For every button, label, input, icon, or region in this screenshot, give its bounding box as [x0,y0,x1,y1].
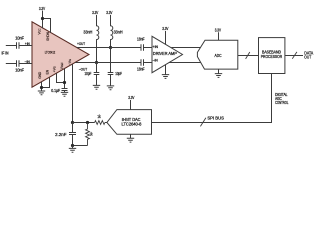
wire SHDN tie to VCC [43,19,51,33]
node IF IN label [2,51,9,56]
svg-text:EN: EN [46,69,50,74]
svg-text:3.3V: 3.3V [39,6,45,11]
svg-text:DRIVER AMP: DRIVER AMP [153,51,177,56]
wire VG- pin stub [57,73,65,82]
svg-text:1k: 1k [90,132,94,137]
wire ADC to baseband bus [238,55,259,57]
op-amp U2 DRIVER AMP [152,36,183,72]
svg-text:−IN: −IN [153,59,159,63]
junction L1/-OUT [95,61,98,64]
node DATA OUT label [304,50,313,59]
wire +IN to LTC6412 [20,45,33,47]
svg-text:LTC2640-8: LTC2640-8 [122,121,143,126]
pin label -IN (driver) [153,59,159,63]
inductor L1 33nH [83,15,98,63]
wire VCC supply [42,11,44,29]
svg-text:IF IN: IF IN [2,51,9,56]
inductor L2 33nH [111,15,123,48]
capacitor C7 2.2nF [55,123,76,146]
svg-text:+IN: +IN [25,42,30,46]
junction GND/EN [40,86,43,89]
ground (C4) [107,86,114,90]
svg-text:−OUT: −OUT [79,67,88,71]
wire baseband to SPI bus [152,74,272,123]
ADC block [197,40,237,69]
ground (GND pin) [38,91,45,95]
ground (DAC) [127,138,134,142]
junction R1 top [86,121,89,124]
wire R2 to DAC [105,122,107,124]
svg-text:10pF: 10pF [115,71,122,76]
junction C7 bottom [71,144,74,147]
capacitor 10nF (+IN coupling) [15,36,24,49]
wire DATA OUT bus [285,55,303,57]
svg-text:PROCESSOR: PROCESSOR [261,54,282,59]
ground (C3) [93,85,100,89]
wire EN pin stub [42,77,50,87]
bus slash (SPI) [200,118,206,127]
capacitor C6 18nF (- path) [137,59,145,71]
node DIGITAL AGC CONTROL label [275,92,289,105]
pin label -OUT [79,67,88,71]
svg-text:10nF: 10nF [15,36,24,41]
wire VG+ pin to RC node [72,64,74,123]
wire ADC ground stub [218,69,220,74]
wire driver supply [165,31,167,45]
svg-text:SHDN: SHDN [46,32,50,41]
svg-text:2.2nF: 2.2nF [55,132,67,137]
power 3.3V (choke L1) [92,10,98,15]
svg-text:GND: GND [38,71,42,79]
wire to ground (RC) [72,146,74,149]
svg-text:18nF: 18nF [137,37,145,42]
svg-text:−IN: −IN [25,60,31,64]
wire -IN input stub [6,63,16,65]
capacitor C5 18nF (+ path) [137,37,145,51]
svg-text:OUT: OUT [304,54,311,59]
wire GND pin stub [41,82,43,91]
svg-text:LTC6412: LTC6412 [45,50,56,54]
power 3.3V (DAC) [128,95,134,100]
svg-text:18nF: 18nF [137,67,145,72]
DAC U3 8-BIT DAC LTC2640-8 [107,110,152,135]
op-amp U1 LTC6412 VGA triangle [32,22,89,87]
pin label VREF [60,62,64,69]
svg-text:−VG: −VG [68,59,72,65]
wire DAC supply [130,100,132,110]
svg-text:CONTROL: CONTROL [275,100,289,105]
wire driver -OUT to ADC [169,62,202,64]
pin label +IN [25,42,30,46]
capacitor C3 10pF (-OUT) [85,63,100,86]
ground (ADC) [215,74,222,78]
svg-text:1k: 1k [97,114,101,119]
power 3.3V (ADC) [215,28,221,33]
svg-text:3.3V: 3.3V [128,95,134,100]
pin label SHDN [46,32,50,41]
capacitor C8 0.1uF [51,88,67,93]
pin label GND [38,71,42,79]
ground (RC filter) [69,148,76,152]
wire VG node to R2 [73,122,95,124]
svg-text:33nH: 33nH [83,29,92,34]
wire DAC ground stub [130,134,132,138]
resistor R2 1k (series) [95,114,105,125]
capacitor 10nF (-IN coupling) [15,60,24,72]
svg-text:3.3V: 3.3V [92,10,98,15]
wire VREF pin stub [64,69,66,89]
svg-text:+VG: +VG [53,66,57,72]
wire ADC supply [218,32,220,40]
ground (C8) [61,92,68,96]
svg-text:10nF: 10nF [15,67,24,72]
power 3.3V (driver) [162,26,168,31]
svg-text:0.1µF: 0.1µF [51,88,60,93]
wire C5 to driver [144,47,152,49]
svg-text:33nH: 33nH [114,29,123,34]
svg-text:3.3V: 3.3V [162,26,168,31]
junction L2/+OUT [109,46,112,49]
wire driver ground stub [165,65,167,75]
wire -IN to LTC6412 [20,63,33,65]
resistor R1 1k (shunt) [86,123,94,146]
power 3.3V (choke L2) [106,10,112,15]
svg-text:SPI BUS: SPI BUS [207,115,224,120]
node SPI BUS label [207,115,224,120]
pin label VCC [38,28,42,34]
pin label EN [46,69,50,74]
svg-text:3.3V: 3.3V [215,28,221,33]
pin label -IN [25,60,31,64]
svg-text:VREF: VREF [60,62,64,69]
pin label +IN (driver) [153,45,159,49]
pin label +OUT [77,42,86,46]
junction VREF/cap [63,81,66,84]
svg-text:ADC: ADC [215,53,222,58]
svg-text:3.3V: 3.3V [106,10,112,15]
wire driver +OUT to ADC [171,47,202,49]
svg-text:VCC: VCC [38,28,42,34]
wire -OUT [75,62,141,64]
wire C6 to driver [144,62,152,64]
svg-text:+OUT: +OUT [77,42,86,46]
junction VG node [71,121,74,124]
pin label VG- [68,59,72,65]
capacitor C4 10pF (+OUT) [108,48,123,86]
ground (driver) [162,75,169,79]
bus slash (ADC-baseband) [246,52,250,59]
pin label VG+ [53,66,57,72]
svg-text:10pF: 10pF [85,71,92,76]
junction VCC/SHDN [41,17,44,20]
wire C7/R1 bottoms join [73,145,88,147]
wire +IN input stub [6,45,16,47]
svg-text:+IN: +IN [153,45,159,49]
BASEBAND PROCESSOR block [259,38,285,74]
bus slash (DATA OUT) [292,52,297,59]
power 3.3V (LTC6412 VCC) [39,6,45,11]
wire +OUT [77,47,141,49]
